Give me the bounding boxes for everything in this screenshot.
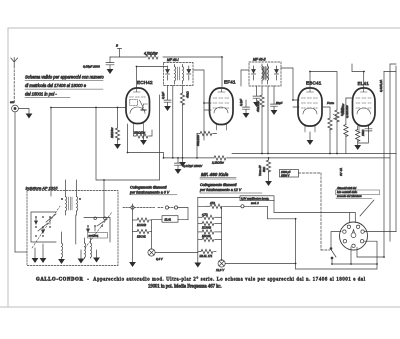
wire MF I to AVC bus xyxy=(172,86,174,158)
IF transformer MF II dashed box xyxy=(249,58,281,87)
svg-text:6,3V/0,3A: 6,3V/0,3A xyxy=(379,80,383,92)
filament group 6V title xyxy=(129,186,177,195)
svg-text:4,7kΩ/1w: 4,7kΩ/1w xyxy=(144,52,158,56)
filament 6V resistor row EBC41 xyxy=(133,229,152,238)
IF transformer MF I dashed box xyxy=(164,58,194,86)
vibrator note text xyxy=(336,186,380,198)
pointer line note to socket xyxy=(360,200,374,216)
capacitor C6 on bus xyxy=(175,158,204,169)
svg-text:50pF: 50pF xyxy=(276,101,283,105)
tube EL41 internals xyxy=(356,89,371,132)
ground xyxy=(107,69,114,74)
ground xyxy=(265,181,272,186)
resistor R8 xyxy=(322,107,332,154)
ground xyxy=(271,110,278,115)
filament 12V rows xyxy=(198,212,222,241)
resistor R5 56k xyxy=(196,131,217,158)
tube EF41 internals xyxy=(213,89,229,130)
MF I primary coil xyxy=(175,65,176,85)
ground xyxy=(26,114,33,119)
filament 6V pilot lamp xyxy=(148,249,164,261)
wire to vibrator socket top xyxy=(274,201,355,223)
svg-text:ant: ant xyxy=(10,100,14,104)
cathode resistor R9 under EL41 xyxy=(356,126,366,145)
svg-text:6V 4A: 6V 4A xyxy=(339,168,343,176)
tuner center wire xyxy=(75,215,77,244)
antenna jack terminal xyxy=(10,100,18,112)
svg-text:1500 V: 1500 V xyxy=(281,173,289,177)
svg-text:Collegamento filamenti: Collegamento filamenti xyxy=(200,183,237,187)
svg-text:2,2kΩ/1w: 2,2kΩ/1w xyxy=(211,161,225,165)
wire ECH42 grid cap to MF I xyxy=(137,67,168,88)
svg-text:EBC41: EBC41 xyxy=(137,235,146,239)
screen chain resistor left of EL41 xyxy=(341,98,353,154)
tuner oscillator coil xyxy=(61,180,81,215)
volume potentiometer R7 xyxy=(327,101,349,154)
MF I left trimmer xyxy=(166,66,170,80)
ground xyxy=(164,106,171,111)
svg-text:ECH42: ECH42 xyxy=(202,226,211,230)
svg-text:20kΩ/1w: 20kΩ/1w xyxy=(133,131,146,135)
MF 460 label xyxy=(200,172,236,179)
tube EBC41 envelope xyxy=(298,88,322,126)
svg-text:0,1μF: 0,1μF xyxy=(161,92,165,99)
svg-text:ECH42: ECH42 xyxy=(137,223,146,227)
filament 6V EL41 branch xyxy=(134,206,188,222)
wire EL41 top right rails xyxy=(384,64,396,241)
svg-text:Induttore AP 1615: Induttore AP 1615 xyxy=(26,186,59,191)
capacitor C5 right of EF41 xyxy=(239,99,250,113)
resistor R10 2,2k on bus xyxy=(214,156,226,160)
grounds tuner left xyxy=(32,244,47,263)
filament 12V terminal xyxy=(198,201,244,208)
tuner left coil to ground xyxy=(58,232,65,264)
wire lamp to 12V rail xyxy=(155,252,198,254)
filament 12V top wire xyxy=(198,196,240,198)
wire MF II left to EF41 xyxy=(241,70,249,86)
node B+ stub xyxy=(116,44,122,58)
wire MF II secondary down xyxy=(267,86,269,154)
filament 6V ladder left rail xyxy=(132,204,134,262)
ground xyxy=(354,145,361,150)
svg-text:EBC41: EBC41 xyxy=(306,81,322,86)
ground below EBC41 xyxy=(307,132,314,145)
wire lamp2 right xyxy=(225,263,295,265)
filament 12V bottom resistor xyxy=(198,249,216,257)
svg-text:MF 46-I: MF 46-I xyxy=(167,58,179,62)
wire antenna jack down to tuner box xyxy=(14,112,16,252)
svg-text:MF 46-II: MF 46-II xyxy=(253,58,266,62)
power switch xyxy=(330,248,336,265)
dash link to vibrator xyxy=(299,173,330,250)
svg-text:Schema valido per apparecchi c: Schema valido per apparecchi con numero xyxy=(25,75,104,80)
svg-text:150Ω: 150Ω xyxy=(361,130,365,136)
wire bottom left riser xyxy=(15,251,27,253)
tuner right coils to ground xyxy=(78,238,100,264)
filament 12V right rail xyxy=(221,206,223,260)
filament 6V input terminal xyxy=(123,206,134,209)
wire 12V terminal staircase xyxy=(244,206,296,269)
MF II left trimmer xyxy=(252,66,256,80)
cathode bypass capacitor under EL41 xyxy=(358,126,372,143)
tuner wave switch left xyxy=(31,212,56,242)
ground xyxy=(253,102,260,107)
svg-text:10kΩ/1w: 10kΩ/1w xyxy=(341,103,345,114)
resistor R11 dropper xyxy=(258,158,271,181)
filament 12V pilot lamp xyxy=(216,260,225,272)
capacitor C4 under MF II xyxy=(271,86,283,110)
svg-text:6,3V amplificatore incorp.: 6,3V amplificatore incorp. xyxy=(241,197,270,200)
tuner dial cord dashed left xyxy=(32,206,60,248)
filament 6V right rail xyxy=(151,220,153,249)
svg-text:Attacchi visti dal: Attacchi visti dal xyxy=(336,186,357,190)
svg-text:GALLO-CONDOR - Apparecchio a: GALLO-CONDOR - Apparecchio autoradio mod… xyxy=(36,278,366,283)
svg-text:40kΩ: 40kΩ xyxy=(186,90,190,98)
svg-text:mod. 2: mod. 2 xyxy=(251,202,259,205)
svg-text:56kΩ/1w: 56kΩ/1w xyxy=(196,134,200,146)
filament group 12V title xyxy=(199,183,262,193)
svg-text:per funzionamento a 12 V: per funzionamento a 12 V xyxy=(199,188,242,192)
handwritten note: schema valido xyxy=(25,75,104,98)
svg-text:Forte: Forte xyxy=(327,101,334,105)
label 1000pF box xyxy=(280,170,299,178)
svg-text:1MΩ/3w: 1MΩ/3w xyxy=(110,127,114,138)
wire tube1 left pin xyxy=(51,95,160,196)
tuner dial cord dashed right xyxy=(85,212,112,248)
second bus xyxy=(232,153,396,155)
ground xyxy=(140,131,147,145)
capacitor C3 under MF II xyxy=(253,86,260,102)
svg-text:EB.EL 171: EB.EL 171 xyxy=(200,254,213,258)
tuner trimmer label box xyxy=(88,233,108,239)
wire B+ rail top xyxy=(110,56,222,58)
MF II coils xyxy=(261,64,269,84)
svg-text:5kΩ: 5kΩ xyxy=(262,166,266,172)
tube EL41 envelope xyxy=(353,88,376,126)
wire to EF41 grid xyxy=(221,57,223,87)
tube EBC41 internals xyxy=(302,89,318,132)
svg-text:47Ω: 47Ω xyxy=(210,201,215,205)
wire socket left pin to switch xyxy=(331,232,341,247)
main HT bus xyxy=(128,124,391,158)
wire MF II right to EBC41 xyxy=(281,68,299,107)
svg-text:0,05μF 2000: 0,05μF 2000 xyxy=(83,65,100,69)
svg-text:EL41: EL41 xyxy=(165,218,172,222)
filament 6V resistor row ECH42 xyxy=(133,218,152,227)
MF I core xyxy=(178,67,180,80)
filament 12V left rail xyxy=(197,197,199,258)
svg-text:di matricola dal 17406 al 1800: di matricola dal 17406 al 18000 e xyxy=(25,83,87,88)
resistor R2 1M vertical xyxy=(110,108,120,145)
wire antenna jack to ground xyxy=(18,109,29,114)
tube ECH42 internals xyxy=(130,89,148,131)
antenna symbol xyxy=(11,58,18,105)
svg-text:MF. 460 Kc/s: MF. 460 Kc/s xyxy=(201,172,229,177)
tube EF41 left pins xyxy=(193,70,211,140)
ground xyxy=(243,113,250,118)
svg-text:0,1μF: 0,1μF xyxy=(239,99,243,106)
svg-text:ECH42: ECH42 xyxy=(137,80,153,85)
svg-text:12,6 V: 12,6 V xyxy=(216,268,225,272)
tube ECH42 envelope xyxy=(126,88,150,124)
ground xyxy=(175,169,182,174)
tube EF41 envelope xyxy=(210,88,234,125)
capacitor C2 under MF I xyxy=(161,86,171,107)
tuner unit dashed box xyxy=(26,186,119,266)
MF II right trimmer xyxy=(275,66,279,80)
MF I right trimmer xyxy=(187,66,191,80)
socket pins xyxy=(343,225,365,247)
amplifier note box xyxy=(240,196,274,205)
ground below bus xyxy=(179,158,186,167)
resistor R6 under MF II xyxy=(256,86,264,154)
socket right wires xyxy=(364,232,396,264)
vibrator socket xyxy=(340,222,368,250)
ground filament 6V xyxy=(129,262,136,267)
bottom wire row xyxy=(296,264,377,269)
svg-text:EF41: EF41 xyxy=(224,80,236,85)
svg-text:B: B xyxy=(116,44,118,48)
ground xyxy=(114,144,121,149)
capacitor C1 xyxy=(106,57,114,69)
tuner wave switch right xyxy=(84,217,110,242)
wire EBC41 grid cap loop xyxy=(310,72,337,111)
svg-text:lato contatti dello: lato contatti dello xyxy=(337,190,358,194)
socket bottom wires xyxy=(351,72,384,265)
MF I secondary coil xyxy=(183,65,184,85)
svg-text:40kΩ/1w: 40kΩ/1w xyxy=(256,100,260,112)
svg-text:6,3 V: 6,3 V xyxy=(156,257,164,261)
ground filament 12V xyxy=(194,258,201,268)
svg-text:4,7Ω: 4,7Ω xyxy=(202,212,208,216)
svg-text:per funzionamento a 6 V: per funzionamento a 6 V xyxy=(129,190,170,194)
resistor R4 under MF I xyxy=(180,86,189,158)
svg-text:0,047μF 1500V: 0,047μF 1500V xyxy=(183,164,203,168)
resistor R1 4,7k xyxy=(146,55,158,59)
svg-text:dal 15001 in poi -: dal 15001 in poi - xyxy=(25,92,57,97)
svg-text:19001 in poi. Media Frequenza: 19001 in poi. Media Frequenza 467 kc. xyxy=(148,285,222,290)
wire EL41 grid xyxy=(352,64,364,88)
wire node to tuner xyxy=(103,180,106,218)
svg-text:Collegamento filamenti: Collegamento filamenti xyxy=(130,186,167,190)
resistor R3 20k xyxy=(133,130,152,138)
